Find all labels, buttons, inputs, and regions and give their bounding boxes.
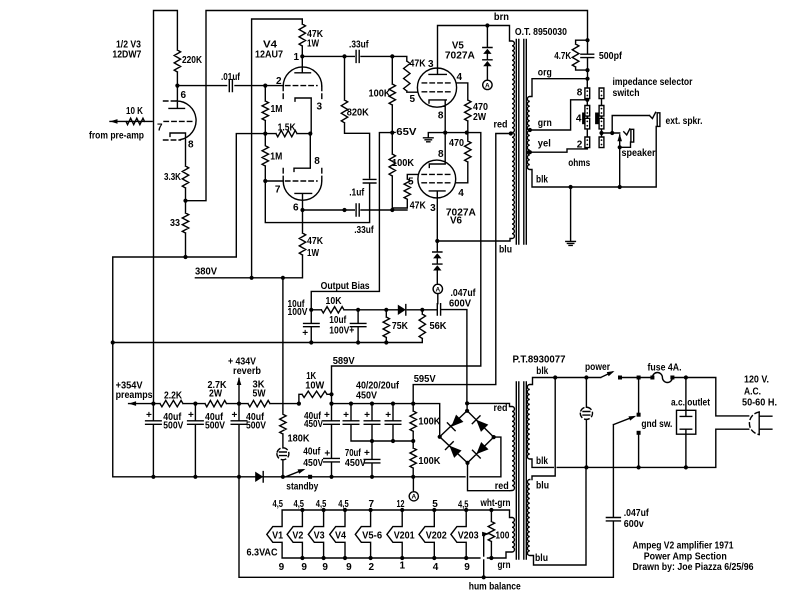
svg-text:12: 12 (397, 499, 405, 510)
svg-text:100: 100 (495, 531, 509, 542)
svg-text:2W: 2W (473, 112, 486, 123)
svg-text:+: + (324, 410, 330, 421)
svg-text:56K: 56K (430, 321, 448, 332)
svg-text:speaker: speaker (622, 148, 656, 159)
svg-text:9: 9 (301, 562, 307, 573)
svg-text:47K: 47K (410, 59, 427, 70)
svg-text:+: + (188, 410, 194, 421)
svg-text:47K: 47K (307, 236, 324, 247)
svg-text:10uf: 10uf (329, 315, 347, 326)
svg-text:100K: 100K (418, 417, 441, 428)
svg-text:.047uf: .047uf (451, 288, 477, 299)
svg-text:fuse 4A.: fuse 4A. (648, 363, 682, 374)
svg-text:7: 7 (369, 499, 375, 510)
svg-text:4,5: 4,5 (338, 499, 349, 510)
svg-text:V6: V6 (450, 215, 462, 226)
svg-text:red: red (495, 481, 509, 492)
svg-text:500V: 500V (163, 421, 183, 432)
svg-text:org: org (538, 68, 552, 79)
svg-text:switch: switch (613, 88, 640, 99)
svg-text:a.c. outlet: a.c. outlet (671, 398, 711, 409)
svg-text:wht-grn: wht-grn (480, 498, 511, 509)
svg-text:V5-6: V5-6 (362, 530, 382, 541)
svg-text:8: 8 (438, 111, 444, 122)
svg-text:180K: 180K (288, 434, 311, 445)
svg-text:1W: 1W (307, 248, 319, 259)
svg-text:600V: 600V (449, 299, 471, 310)
svg-text:Output Bias: Output Bias (321, 281, 370, 292)
svg-text:blk: blk (536, 366, 548, 377)
svg-text:power: power (585, 362, 610, 373)
svg-text:5: 5 (408, 177, 414, 188)
svg-text:10 K: 10 K (126, 106, 144, 117)
svg-text:9: 9 (279, 562, 285, 573)
svg-text:Ampeg V2 amplifier 1971: Ampeg V2 amplifier 1971 (633, 541, 734, 552)
svg-text:red: red (494, 120, 508, 131)
svg-text:+: + (324, 449, 330, 460)
svg-text:40uf: 40uf (303, 447, 321, 458)
svg-text:10W: 10W (305, 381, 325, 392)
svg-text:+: + (343, 410, 349, 421)
svg-text:8: 8 (188, 140, 194, 151)
svg-text:.047uf: .047uf (624, 508, 650, 519)
svg-text:7: 7 (157, 123, 163, 134)
svg-text:9: 9 (346, 562, 352, 573)
svg-text:9: 9 (322, 562, 328, 573)
svg-text:450V: 450V (356, 391, 377, 402)
svg-text:2.2K: 2.2K (164, 391, 183, 402)
svg-text:100V: 100V (288, 307, 308, 318)
svg-text:1W: 1W (307, 39, 319, 50)
svg-text:4,5: 4,5 (316, 499, 327, 510)
svg-text:V203: V203 (458, 530, 479, 541)
svg-text:450V: 450V (345, 458, 366, 469)
svg-text:7: 7 (275, 185, 281, 196)
svg-text:3.3K: 3.3K (164, 172, 182, 183)
svg-text:8: 8 (314, 156, 320, 167)
svg-text:100K: 100K (392, 158, 415, 169)
svg-text:Power Amp Section: Power Amp Section (644, 552, 727, 563)
svg-text:3: 3 (317, 102, 323, 113)
svg-text:2: 2 (577, 140, 583, 151)
svg-text:-65V: -65V (393, 127, 417, 138)
svg-text:100K: 100K (418, 456, 441, 467)
svg-text:blu: blu (535, 553, 548, 564)
svg-text:5: 5 (410, 94, 416, 105)
svg-text:V202: V202 (426, 530, 447, 541)
svg-text:12DW7: 12DW7 (112, 50, 141, 61)
svg-text:8: 8 (577, 88, 583, 99)
svg-text:220K: 220K (182, 55, 203, 66)
svg-text:P.T.8930077: P.T.8930077 (513, 355, 566, 366)
svg-text:V201: V201 (394, 530, 415, 541)
svg-text:2: 2 (276, 76, 282, 87)
svg-text:100K: 100K (369, 89, 392, 100)
svg-text:6.3VAC: 6.3VAC (247, 548, 278, 559)
svg-text:9: 9 (464, 562, 470, 573)
svg-text:1: 1 (400, 561, 406, 572)
svg-text:+: + (364, 410, 370, 421)
svg-text:820K: 820K (347, 108, 370, 119)
svg-text:.33uf: .33uf (349, 40, 369, 51)
svg-text:595V: 595V (414, 374, 436, 385)
svg-text:gnd sw.: gnd sw. (641, 419, 672, 430)
svg-text:6: 6 (181, 90, 187, 101)
svg-text:50-60 H.: 50-60 H. (742, 398, 777, 409)
svg-text:1.5K: 1.5K (278, 123, 297, 134)
svg-text:4: 4 (576, 113, 582, 124)
svg-text:V2: V2 (292, 530, 303, 541)
svg-text:2: 2 (369, 562, 375, 573)
svg-text:Drawn by: Joe Piazza 6/25/96: Drawn by: Joe Piazza 6/25/96 (633, 562, 754, 573)
svg-text:brn: brn (494, 12, 509, 23)
svg-text:blu: blu (536, 481, 549, 492)
svg-text:blk: blk (536, 175, 548, 186)
svg-text:red: red (494, 403, 508, 414)
svg-text:12AU7: 12AU7 (255, 50, 283, 61)
svg-text:47K: 47K (410, 201, 427, 212)
svg-text:100V+: 100V+ (329, 326, 354, 337)
svg-text:4: 4 (458, 188, 464, 199)
svg-text:2W: 2W (209, 389, 222, 400)
svg-text:380V: 380V (195, 267, 217, 278)
svg-text:500pf: 500pf (599, 51, 623, 62)
svg-text:A: A (435, 286, 440, 293)
svg-text:6: 6 (293, 203, 299, 214)
svg-text:O.T. 8950030: O.T. 8950030 (515, 27, 567, 38)
svg-text:grn: grn (498, 560, 511, 571)
svg-text:+: + (232, 410, 238, 421)
svg-text:5W: 5W (253, 389, 266, 400)
svg-text:ohms: ohms (568, 158, 590, 169)
svg-text:10K: 10K (326, 296, 343, 307)
svg-text:+: + (385, 410, 391, 421)
svg-text:3: 3 (430, 203, 436, 214)
svg-text:grn: grn (538, 118, 552, 129)
svg-text:4: 4 (457, 72, 463, 83)
svg-text:.33uf: .33uf (354, 225, 374, 236)
svg-text:yel: yel (538, 139, 551, 150)
svg-text:1M: 1M (270, 152, 282, 163)
svg-text:ext. spkr.: ext. spkr. (666, 116, 703, 127)
svg-text:+: + (302, 328, 308, 339)
svg-text:4: 4 (433, 562, 439, 573)
svg-text:blu: blu (499, 245, 512, 256)
svg-text:33: 33 (170, 218, 180, 229)
svg-text:.1uf: .1uf (349, 188, 365, 199)
svg-text:V4: V4 (335, 530, 346, 541)
svg-text:500V: 500V (205, 421, 225, 432)
svg-text:450V: 450V (303, 458, 323, 469)
svg-text:4,5: 4,5 (273, 499, 284, 510)
svg-text:from pre-amp: from pre-amp (89, 131, 144, 142)
svg-text:500V: 500V (246, 421, 266, 432)
svg-text:4,5: 4,5 (294, 499, 305, 510)
svg-text:5: 5 (432, 499, 438, 510)
svg-text:preamps: preamps (116, 390, 153, 401)
svg-text:V1: V1 (272, 530, 283, 541)
svg-text:1: 1 (294, 52, 300, 63)
svg-text:hum balance: hum balance (469, 582, 521, 593)
svg-text:impedance selector: impedance selector (613, 77, 693, 88)
svg-text:standby: standby (286, 482, 318, 493)
svg-text:589V: 589V (333, 356, 355, 367)
svg-text:470: 470 (449, 138, 464, 149)
svg-text:75K: 75K (392, 321, 409, 332)
svg-text:4.7K: 4.7K (554, 51, 572, 62)
svg-text:4,5: 4,5 (458, 500, 469, 511)
svg-text:120 V.: 120 V. (744, 375, 769, 386)
svg-text:600v: 600v (624, 519, 644, 530)
svg-text:V3: V3 (314, 530, 325, 541)
svg-text:450V: 450V (304, 419, 323, 430)
svg-text:3: 3 (428, 59, 434, 70)
svg-text:7027A: 7027A (445, 51, 475, 62)
svg-text:A: A (411, 494, 416, 501)
svg-text:A.C.: A.C. (744, 387, 761, 398)
svg-text:8: 8 (438, 149, 444, 160)
svg-text:A: A (485, 82, 490, 89)
svg-text:.01uf: .01uf (221, 72, 241, 83)
svg-text:+: + (146, 410, 152, 421)
svg-text:1M: 1M (271, 104, 283, 115)
svg-text:blk: blk (536, 456, 548, 467)
svg-text:reverb: reverb (233, 366, 261, 377)
